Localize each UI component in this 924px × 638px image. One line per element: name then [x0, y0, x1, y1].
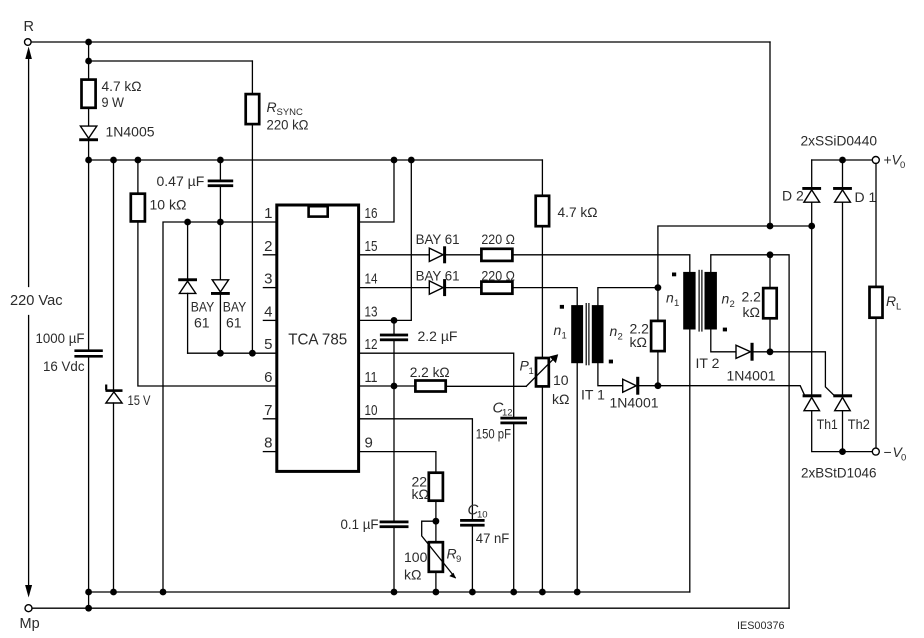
svg-text:2.2 kΩ: 2.2 kΩ	[410, 364, 450, 380]
resistor 2.2 kOhm IT2 side	[763, 255, 777, 352]
pin 1	[264, 205, 272, 222]
wire IT2 secondary top	[711, 255, 789, 608]
label IT 2	[696, 355, 720, 371]
svg-text:15: 15	[365, 238, 378, 255]
label 2.2 kOhm IT1 side	[630, 321, 650, 351]
junction R9 top	[433, 518, 440, 525]
svg-text:1N4001: 1N4001	[727, 368, 776, 384]
svg-text:2: 2	[264, 238, 272, 255]
label BAY 61 left	[191, 299, 215, 331]
label n1 IT1	[554, 322, 567, 342]
wire link IT1 to AC line y226	[658, 226, 812, 288]
svg-text:+: +	[884, 152, 892, 168]
pin 5	[264, 336, 272, 353]
svg-text:220 Vac: 220 Vac	[10, 292, 63, 309]
diode BAY 61 pin15	[359, 246, 447, 263]
wire pin5 sync net	[188, 352, 277, 354]
label 4.7 kOhm 9 W	[102, 78, 142, 110]
wire Th1 cathode	[812, 411, 843, 452]
svg-text:220 Ω: 220 Ω	[481, 268, 515, 284]
wire pin11 to 2.2k	[394, 385, 415, 387]
svg-text:10: 10	[477, 510, 488, 521]
junction bus x394	[391, 157, 398, 164]
label 2.2 uF	[418, 328, 458, 344]
svg-text:150 pF: 150 pF	[476, 426, 511, 442]
diode BAY 61 left	[178, 222, 197, 353]
label 10 kOhm	[150, 197, 187, 213]
wire 10k column upper	[137, 160, 139, 194]
potentiometer R9 100 kOhm	[422, 521, 456, 578]
svg-text:0.47 µF: 0.47 µF	[157, 173, 205, 189]
zener diode 15 V	[106, 386, 123, 403]
svg-text:2: 2	[618, 332, 623, 343]
wire R9 to ground bus	[435, 572, 437, 592]
pin 10	[365, 402, 378, 419]
svg-text:2xBStD1046: 2xBStD1046	[801, 465, 877, 481]
wire pin16 net	[359, 160, 394, 222]
diode D1	[833, 160, 852, 394]
svg-text:R: R	[886, 293, 896, 309]
label 2xBStD1046	[801, 465, 877, 481]
label C10 47 nF	[468, 502, 510, 547]
svg-text:1: 1	[674, 298, 679, 309]
diode D2	[802, 160, 821, 226]
svg-text:kΩ: kΩ	[404, 567, 421, 583]
transformer IT1 windings	[571, 304, 603, 365]
label 220 Ohm pin15	[481, 231, 515, 247]
label RSYNC 220 kOhm	[267, 99, 309, 133]
junction ground bus x542	[539, 589, 546, 596]
svg-text:BAY 61: BAY 61	[416, 231, 460, 247]
pin 11	[365, 369, 378, 386]
terminal -V0	[872, 448, 879, 455]
resistor 22 kOhm	[429, 473, 443, 501]
svg-text:kΩ: kΩ	[743, 304, 760, 320]
polarity dot IT1 primary	[560, 305, 564, 309]
wire pin10 net	[359, 419, 473, 519]
svg-text:12: 12	[365, 336, 378, 353]
svg-text:8: 8	[264, 435, 272, 452]
label 2xSSiD0440	[801, 133, 878, 149]
label 2.2 kOhm	[410, 364, 450, 380]
junction ground bus x113	[110, 589, 117, 596]
resistor 4.7 kOhm 9 W	[82, 80, 96, 108]
svg-text:4.7 kΩ: 4.7 kΩ	[102, 78, 142, 94]
wire pin1 ground net	[163, 222, 277, 592]
wire supply bus Vs	[89, 159, 543, 161]
pin 15	[365, 238, 378, 255]
svg-text:n: n	[554, 322, 562, 338]
svg-text:n: n	[610, 323, 618, 339]
svg-text:IES00376: IES00376	[737, 620, 785, 632]
wire pin11 net	[359, 385, 394, 387]
label D1	[855, 189, 877, 205]
svg-text:16 Vdc: 16 Vdc	[43, 358, 85, 374]
pin 8	[263, 435, 276, 452]
svg-text:9: 9	[456, 554, 461, 565]
svg-text:10: 10	[553, 372, 569, 388]
pin 6	[264, 369, 272, 386]
pin 12	[365, 336, 378, 353]
junction IT1 sec / 2.2k top	[655, 284, 662, 291]
wire RSYNC to pin5	[251, 124, 253, 353]
svg-text:1N4005: 1N4005	[106, 124, 155, 140]
label 1N4001 IT1	[610, 395, 659, 411]
op-amp U1 TCA 785 package	[277, 205, 359, 471]
junction bus x411	[408, 157, 415, 164]
svg-text:5: 5	[264, 336, 272, 353]
capacitor C10 47 nF	[460, 519, 485, 592]
label IT 1	[581, 387, 605, 403]
junction ground bus x88	[85, 589, 92, 596]
label RL	[886, 293, 901, 313]
svg-text:L: L	[896, 302, 901, 313]
junction D1 top	[839, 157, 846, 164]
resistor 2.2 kOhm	[415, 381, 445, 392]
pin 14	[365, 271, 378, 288]
label 220 Vac	[10, 292, 63, 309]
wire AC line to output bridge	[769, 42, 771, 226]
wire 2.2k to P1 wiper	[446, 385, 527, 387]
label 15 V	[128, 392, 152, 408]
junction bus x220	[217, 157, 224, 164]
wire IT1 secondary top	[598, 288, 658, 306]
svg-text:n: n	[666, 290, 674, 306]
wire 1N4001 to gate junction	[639, 385, 658, 387]
label Th1	[817, 416, 838, 432]
junction ground bus x394	[391, 589, 398, 596]
junction y226 AC column	[767, 223, 774, 230]
wire rail to RSYNC	[89, 61, 253, 94]
junction rail y61	[85, 58, 92, 65]
label 220 Ohm pin14	[481, 268, 515, 284]
wire 22k to R9	[435, 501, 437, 543]
wire left column to 1000uF	[88, 160, 90, 349]
resistor 10 kOhm	[131, 194, 145, 222]
junction ground bus x436	[433, 589, 440, 596]
wire P1 to ground bus	[541, 386, 543, 592]
svg-text:0: 0	[901, 453, 906, 464]
label 1N4005	[106, 124, 155, 140]
svg-text:10 kΩ: 10 kΩ	[150, 197, 187, 213]
wire ground bus	[89, 591, 690, 593]
svg-text:1000 µF: 1000 µF	[36, 330, 85, 346]
label 100 kOhm	[404, 549, 428, 583]
svg-text:15 V: 15 V	[128, 392, 152, 408]
label -V0	[884, 444, 907, 464]
wire zener column upper	[113, 160, 115, 389]
svg-text:1N4001: 1N4001	[610, 395, 659, 411]
wire +V0 rail	[812, 159, 873, 161]
svg-text:1: 1	[562, 331, 567, 342]
wire 1N4001 to Th2 gate node	[754, 351, 770, 353]
resistor RL	[870, 287, 883, 318]
wire pin9 net	[359, 452, 436, 473]
wire D2 to Th1	[811, 226, 813, 394]
label BAY 61 pin14	[416, 268, 460, 284]
pin 3	[263, 271, 276, 288]
svg-text:6: 6	[264, 369, 272, 386]
svg-text:kΩ: kΩ	[630, 334, 647, 350]
pin 7	[263, 402, 276, 419]
wire RL column top	[875, 163, 877, 287]
svg-text:Mp: Mp	[20, 616, 40, 632]
svg-text:1: 1	[264, 205, 272, 222]
resistor 220 Ohm pin14	[481, 282, 512, 294]
wire 1000uF to ground bus	[88, 358, 90, 608]
junction ground bus x513	[510, 589, 517, 596]
wire RL to -V0	[875, 318, 877, 452]
label IES00376	[737, 620, 785, 632]
capacitor C12 150 pF	[500, 417, 527, 592]
capacitor 2.2 uF	[380, 320, 408, 386]
wire left column upper	[88, 42, 90, 80]
label C12 150 pF	[476, 400, 513, 442]
svg-text:n: n	[722, 291, 730, 307]
wire IT1 primary bottom to ground bus	[576, 363, 578, 592]
wire diode to supply bus	[88, 141, 90, 160]
diode 1N4001 IT1	[623, 377, 640, 395]
svg-text:16: 16	[365, 205, 378, 222]
wire to -V0 terminal	[843, 451, 873, 453]
resistor 4.7 kOhm right	[536, 160, 549, 358]
label n2 IT2	[722, 291, 735, 311]
wire zener to bottom bus	[113, 403, 115, 592]
resistor 220 Ohm pin15	[481, 249, 512, 261]
junction y226 thyristor column	[808, 223, 815, 230]
wire gate Th1	[658, 386, 805, 395]
junction -V0 line	[839, 448, 846, 455]
diode BAY 61 pin14	[359, 279, 447, 296]
svg-text:BAY: BAY	[191, 299, 215, 315]
svg-text:2: 2	[730, 299, 735, 310]
svg-text:TCA 785: TCA 785	[288, 332, 347, 349]
transformer IT2 windings	[683, 270, 717, 331]
junction pin1/BAY61 left	[184, 219, 191, 226]
label BAY 61 right	[223, 299, 247, 331]
svg-text:R: R	[24, 19, 34, 35]
thyristor Th2	[833, 394, 852, 410]
junction gate Th1 node	[655, 382, 662, 389]
diode BAY 61 right	[211, 222, 230, 353]
junction ground bus x577	[574, 589, 581, 596]
svg-text:13: 13	[365, 303, 378, 320]
pin 2	[263, 238, 276, 255]
junction ground bus x163	[160, 589, 167, 596]
pin 4	[263, 303, 276, 320]
wire Th2 cathode	[842, 411, 844, 452]
svg-text:12: 12	[502, 408, 513, 419]
label n1 IT2	[666, 290, 679, 310]
junction bus x113	[110, 157, 117, 164]
capacitor 0.1 uF	[380, 521, 409, 593]
junction phase rail / left column	[85, 39, 92, 46]
pin 16	[365, 205, 378, 222]
svg-text:3: 3	[264, 271, 272, 288]
svg-text:Th2: Th2	[848, 416, 870, 432]
wire IT1 secondary bottom	[598, 363, 623, 386]
wire diode to 220R pin15	[446, 254, 481, 256]
terminal Mp	[20, 605, 40, 632]
svg-text:14: 14	[365, 271, 378, 288]
svg-text:47 nF: 47 nF	[476, 530, 510, 546]
label +V0	[884, 152, 906, 172]
wire x394 column to ground	[393, 386, 395, 521]
svg-text:100: 100	[404, 549, 428, 565]
svg-text:220 kΩ: 220 kΩ	[267, 117, 309, 133]
label Th2	[848, 416, 870, 432]
junction IT2 sec top / 2.2k column	[767, 251, 774, 258]
label 0.1 uF	[341, 516, 379, 532]
wire resistor to diode	[88, 108, 90, 126]
wire 10k to pin6 net	[138, 221, 277, 386]
capacitor 1000 uF 16 Vdc	[74, 349, 102, 357]
label 1N4001 IT2	[727, 368, 776, 384]
pin 9	[365, 435, 373, 452]
label 0.47 uF	[157, 173, 205, 189]
svg-text:D 2: D 2	[782, 188, 804, 204]
svg-text:220 Ω: 220 Ω	[481, 231, 515, 247]
measuring arrow 220 Vac	[25, 47, 32, 598]
junction gate Th2 node	[767, 348, 774, 355]
svg-text:9 W: 9 W	[102, 94, 125, 110]
resistor 2.2 kOhm IT1 side	[651, 288, 665, 386]
svg-text:0: 0	[900, 160, 905, 171]
svg-text:R: R	[267, 99, 277, 115]
label TCA 785	[288, 332, 347, 349]
label BAY 61 pin15	[416, 231, 460, 247]
junction bus x138	[135, 157, 142, 164]
junction pin11 x394	[391, 383, 398, 390]
svg-text:Th1: Th1	[817, 416, 838, 432]
terminal +V0	[872, 157, 879, 164]
svg-text:BAY 61: BAY 61	[416, 268, 460, 284]
svg-text:IT 2: IT 2	[696, 355, 720, 371]
svg-text:4.7 kΩ: 4.7 kΩ	[558, 204, 598, 220]
capacitor 0.47 uF	[208, 160, 234, 222]
wire pin12 net	[359, 353, 514, 417]
wire Mp line	[32, 607, 789, 609]
label 10 kOhm P1	[552, 372, 569, 407]
junction pin5 x252	[249, 350, 256, 357]
thyristor Th1	[803, 394, 822, 410]
svg-text:9: 9	[365, 435, 373, 452]
svg-text:D 1: D 1	[855, 189, 877, 205]
label 4.7 kOhm right	[558, 204, 598, 220]
label P1	[520, 358, 534, 378]
label 22 kOhm	[412, 474, 429, 503]
junction pin5 x220	[217, 350, 224, 357]
terminal R	[24, 19, 34, 45]
wire pin14 to IT1 primary	[513, 288, 578, 306]
svg-text:kΩ: kΩ	[552, 391, 569, 407]
pin 13	[365, 303, 378, 320]
svg-text:2.2 µF: 2.2 µF	[418, 328, 458, 344]
label 1000 uF 16 Vdc	[36, 330, 85, 374]
label n2 IT1	[610, 323, 623, 343]
svg-text:4: 4	[264, 303, 272, 320]
svg-text:BAY: BAY	[223, 299, 247, 315]
polarity dot IT2 secondary	[723, 328, 727, 332]
svg-text:0.1 µF: 0.1 µF	[341, 516, 379, 532]
svg-text:1: 1	[529, 366, 534, 377]
potentiometer P1 10 kOhm	[526, 354, 558, 386]
label R9	[447, 546, 462, 566]
svg-text:IT 1: IT 1	[581, 387, 605, 403]
svg-text:−: −	[884, 444, 892, 460]
svg-text:7: 7	[264, 402, 272, 419]
junction Mp line x88	[85, 605, 92, 612]
wire phase rail R	[31, 41, 770, 43]
diode 1N4005	[79, 126, 98, 141]
svg-text:11: 11	[365, 369, 378, 386]
svg-text:10: 10	[365, 402, 378, 419]
polarity dot IT2 primary	[672, 273, 676, 277]
junction pin13 x394	[391, 317, 398, 324]
svg-text:2xSSiD0440: 2xSSiD0440	[801, 133, 878, 149]
junction ground bus x472	[469, 589, 476, 596]
svg-text:61: 61	[226, 315, 242, 331]
resistor RSYNC 220 kOhm	[246, 94, 260, 124]
svg-text:kΩ: kΩ	[412, 486, 429, 502]
wire IT2 secondary bottom	[711, 330, 736, 352]
wire IT2 primary bottom to ground bus	[689, 330, 691, 593]
wire pin15 to IT2 primary	[513, 255, 690, 272]
polarity dot IT1 secondary	[609, 360, 613, 364]
wire pin13 net	[359, 160, 412, 320]
diode 1N4001 IT2	[736, 343, 754, 361]
svg-text:2.2: 2.2	[742, 289, 762, 305]
label D2	[782, 188, 804, 204]
wire diode to 220R pin14	[446, 287, 481, 289]
wire gate Th2	[770, 352, 834, 395]
label 2.2 kOhm IT2 side	[742, 289, 762, 321]
junction bus x88	[85, 157, 92, 164]
junction pin1/BAY61 right	[217, 219, 224, 226]
svg-text:61: 61	[194, 315, 210, 331]
